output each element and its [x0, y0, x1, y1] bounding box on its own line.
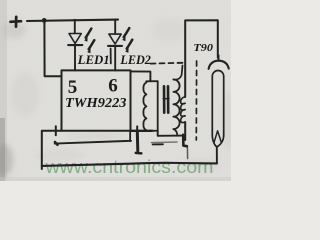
wire bottom rail: [42, 163, 217, 166]
LED LED1 wire: [74, 20, 76, 34]
fluorescent tube: [212, 70, 223, 136]
left edge smudge: [0, 0, 7, 181]
wire left branch: [44, 20, 61, 76]
wire IC bottom right: [131, 130, 153, 132]
svg-text:6: 6: [108, 75, 118, 96]
wire secondary bottom connector: [173, 129, 177, 136]
LED LED1 light arrows: [86, 29, 95, 50]
tube filament electrode: [214, 131, 221, 143]
transformer T1 primary coil bumps: [143, 82, 146, 130]
dashed wire to lamp (horizontal): [151, 62, 183, 65]
svg-text:LED2: LED2: [119, 53, 150, 67]
node A junction dot: [42, 18, 47, 23]
transformer T1 secondary winding: [173, 80, 179, 130]
LED LED1 triangle: [69, 34, 81, 44]
LED LED2 light arrows: [124, 28, 133, 49]
filament winding L2 bumps: [181, 97, 186, 123]
plus terminal: [11, 17, 22, 27]
bottom edge smudge: [0, 177, 231, 181]
LED LED1 cathode bar: [68, 44, 82, 46]
node B plus tick: [55, 126, 57, 135]
wire IC bottom left: [42, 131, 62, 169]
tube bottom taper: [212, 136, 223, 146]
transformer T1 primary winding box: [146, 81, 158, 131]
lamp dome cap: [218, 55, 220, 61]
svg-text:www.cntronics.com: www.cntronics.com: [44, 157, 213, 177]
dashed wire lamp return (vertical): [195, 61, 197, 140]
LED LED2 cathode bar: [108, 45, 122, 47]
svg-text:TWH9223: TWH9223: [65, 95, 127, 110]
wire IC pin to transformer T1 primary: [131, 71, 151, 81]
dash segments near battery: [151, 141, 177, 144]
wire bus drop to rail: [186, 147, 188, 159]
battery B1 box corner blob: [55, 142, 58, 145]
wire top rail: [27, 20, 118, 21]
lamp holder frame wire: [185, 20, 218, 97]
wire transformer bottom bus: [158, 131, 184, 136]
battery B1 box top edge: [55, 141, 131, 144]
wire IC right edge extension: [129, 131, 131, 141]
paper background: [0, 0, 231, 181]
node C plus tick: [136, 126, 138, 135]
transformer T1 core: [163, 86, 166, 112]
svg-text:T90: T90: [193, 43, 213, 54]
LED LED2 triangle: [109, 34, 121, 44]
LED LED2 wire: [114, 20, 116, 34]
IC U1 TWH9223 body: [62, 70, 131, 130]
svg-text:LED1: LED1: [77, 53, 110, 67]
capacitor C1 thick lead: [136, 132, 140, 151]
lamp base stem: [216, 147, 218, 164]
wire secondary top hook: [173, 66, 182, 80]
